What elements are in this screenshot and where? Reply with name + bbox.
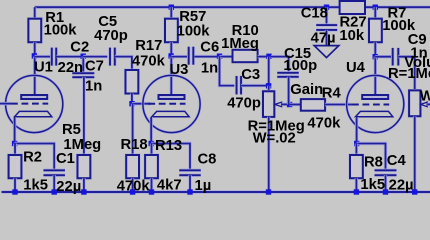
svg-text:470k: 470k — [117, 178, 151, 194]
capacitor C18 — [316, 23, 337, 26]
wire C18 to ground — [325, 30, 328, 46]
wire C8 bottom lead — [188, 175, 191, 192]
wire node to C9 — [375, 55, 391, 58]
wire R2 top lead — [13, 144, 16, 156]
wire R13 top lead — [150, 144, 153, 156]
resistor R57 — [164, 18, 178, 43]
potentiometer Volume wiper arrow — [421, 102, 427, 107]
node rail R13 — [149, 189, 154, 194]
wire R1 top lead — [33, 7, 36, 19]
capacitor C15 — [277, 71, 299, 74]
svg-text:C8: C8 — [198, 152, 217, 168]
svg-text:U4: U4 — [346, 60, 366, 76]
svg-text:W=.02: W=.02 — [253, 130, 296, 146]
node rail R18 — [130, 189, 135, 194]
wire U1 cathode to C1 corner — [15, 144, 55, 171]
resistor R1 — [28, 18, 42, 43]
svg-text:470k: 470k — [132, 53, 166, 69]
wire gain pot bottom lead — [267, 117, 270, 192]
capacitor C7 — [72, 71, 94, 74]
svg-text:100k: 100k — [177, 23, 211, 39]
svg-text:R18: R18 — [121, 137, 148, 153]
wire R17 bottom lead — [130, 94, 133, 104]
resistor R10 — [233, 50, 258, 62]
resistor R7 — [368, 18, 382, 43]
triode U3 envelope and plate — [143, 75, 200, 132]
wire C6 to C3 node — [194, 55, 219, 58]
wire U3 plate lead — [170, 57, 173, 95]
capacitor C6 — [187, 47, 190, 65]
wire grid node to R18 — [131, 104, 134, 155]
svg-text:C3: C3 — [241, 67, 260, 83]
wire R18 bottom lead — [131, 178, 134, 192]
resistor R27 — [340, 1, 365, 14]
triode U4 envelope and plate — [347, 75, 404, 132]
node rail gain pot — [266, 189, 271, 194]
wire U4 plate lead — [374, 57, 377, 95]
wire wiper to R4 — [290, 103, 301, 106]
wire R57 top lead — [170, 7, 173, 19]
wire R7 bottom lead — [374, 42, 377, 57]
wire C3 right to pot node — [241, 84, 269, 87]
node rail R8 — [354, 189, 359, 194]
wire U3 cathode lead — [149, 117, 152, 144]
node gain wiper junction — [287, 102, 292, 107]
wire bottom ground rail — [2, 190, 430, 194]
svg-text:470p: 470p — [227, 96, 261, 112]
wire C7 top riser — [82, 57, 85, 74]
node U3 cathode junction — [149, 141, 154, 146]
potentiometer Gain body — [262, 91, 275, 118]
wire C5 to R17 corner — [115, 57, 132, 70]
svg-text:R=1Meg: R=1Meg — [388, 66, 430, 82]
node B junction — [81, 54, 86, 59]
svg-text:22µ: 22µ — [56, 179, 81, 195]
wire U3 grid lead — [132, 102, 151, 105]
svg-text:47µ: 47µ — [311, 31, 336, 47]
wire C15 bottom to wiper — [287, 77, 290, 105]
svg-text:R13: R13 — [155, 138, 182, 154]
wire volume pot bottom lead — [413, 116, 416, 192]
svg-text:C6: C6 — [200, 40, 219, 56]
node U4 cathode junction — [354, 141, 359, 146]
wire gain node to C15 corner — [271, 57, 289, 73]
wire C9 to volume pot corner — [398, 57, 414, 90]
svg-text:10k: 10k — [339, 28, 364, 44]
wire R10 to gain node — [258, 55, 269, 58]
wire R7 top lead — [374, 7, 377, 19]
node rail C18 — [324, 5, 329, 10]
wire R8 top lead — [355, 144, 358, 156]
wire C4 bottom lead — [384, 175, 387, 192]
node rail volume pot — [412, 189, 417, 194]
capacitor C4 — [375, 169, 397, 172]
svg-text:1k5: 1k5 — [360, 177, 385, 193]
svg-text:100p: 100p — [283, 58, 317, 74]
triode U1 cathode — [15, 111, 52, 116]
svg-text:R8: R8 — [364, 154, 383, 170]
capacitor C3 — [235, 76, 238, 95]
triode U4 cathode — [356, 111, 393, 116]
wire U4 cathode lead — [355, 117, 358, 144]
node C3 branch junction — [217, 54, 222, 59]
node rail R57 — [169, 5, 174, 10]
resistor R13 — [144, 154, 158, 179]
triode U1 grid — [11, 103, 48, 105]
ground symbol — [314, 46, 339, 58]
wire gain pot top lead — [267, 86, 270, 91]
svg-text:R17: R17 — [135, 38, 162, 54]
triode U1 envelope and plate — [6, 75, 63, 132]
capacitor C1 — [43, 169, 64, 172]
wire R5 bottom lead — [82, 178, 85, 192]
node U3 grid junction — [129, 101, 134, 106]
wire C18 top riser — [325, 7, 328, 25]
wire top supply rail — [35, 5, 340, 8]
wire R1 bottom lead — [33, 42, 36, 56]
wire U1 plate lead — [33, 57, 36, 95]
triode U3 cathode — [152, 111, 189, 116]
svg-text:C18: C18 — [301, 6, 328, 22]
svg-text:C2: C2 — [70, 39, 89, 55]
resistor R2 — [8, 154, 22, 179]
svg-text:C4: C4 — [387, 153, 407, 169]
wire C2 to node B — [57, 55, 84, 58]
wire U1 grid input — [0, 102, 11, 105]
resistor R18 — [125, 154, 139, 179]
svg-text:C7: C7 — [85, 59, 104, 75]
svg-text:R2: R2 — [23, 150, 42, 166]
resistor R5 — [77, 154, 91, 179]
potentiometer Gain wiper arrow — [275, 102, 282, 107]
capacitor C9 — [391, 48, 394, 66]
resistor R17 — [125, 69, 139, 94]
node rail C4 — [383, 189, 388, 194]
node gain top junction — [266, 54, 271, 59]
wire C3 left drop — [220, 57, 235, 86]
wire R2 bottom lead — [13, 178, 16, 192]
node rail C8 — [187, 189, 192, 194]
svg-text:100k: 100k — [44, 23, 78, 39]
wire R4 to U4 grid — [325, 103, 352, 106]
node rail R7 — [373, 5, 378, 10]
svg-text:W=.02: W=.02 — [420, 89, 430, 105]
triode U4 grid — [352, 104, 389, 106]
resistor R4 — [301, 99, 325, 111]
wire C1 bottom lead — [53, 175, 56, 192]
capacitor C5 — [108, 48, 111, 66]
wire C7 to R5 — [82, 77, 85, 155]
node U4 plate junction — [373, 54, 378, 59]
svg-text:1n: 1n — [201, 61, 218, 77]
svg-text:1k5: 1k5 — [23, 177, 48, 193]
potentiometer Volume body — [408, 90, 421, 117]
node U1 plate junction — [32, 53, 37, 58]
wire gain node down — [267, 57, 270, 86]
node gain pot top junction — [266, 83, 271, 88]
svg-text:Gain: Gain — [290, 82, 323, 98]
node rail C1 — [52, 189, 57, 194]
svg-text:4k7: 4k7 — [157, 178, 182, 194]
svg-text:C1: C1 — [56, 151, 75, 167]
svg-text:1µ: 1µ — [195, 178, 212, 194]
wire node to C6 — [171, 55, 187, 58]
node rail R5 — [81, 189, 86, 194]
svg-text:1Meg: 1Meg — [221, 36, 259, 52]
svg-text:22n: 22n — [58, 60, 84, 76]
wire node B to C5 — [83, 55, 107, 58]
capacitor C2 — [50, 48, 53, 66]
wire R57 bottom lead — [170, 42, 173, 56]
svg-text:R5: R5 — [62, 122, 81, 138]
node U1 cathode junction — [12, 141, 17, 146]
svg-text:U3: U3 — [170, 62, 189, 78]
svg-text:1Meg: 1Meg — [63, 137, 101, 153]
wire C3 node to R10 — [220, 55, 233, 58]
svg-text:470p: 470p — [94, 28, 128, 44]
svg-text:U1: U1 — [34, 60, 53, 76]
wire R8 bottom lead — [355, 178, 358, 192]
svg-text:22µ: 22µ — [389, 177, 414, 193]
wire U1 cathode lead — [13, 117, 16, 144]
triode U3 grid — [148, 103, 185, 105]
svg-text:R4: R4 — [322, 86, 342, 102]
wire U3 cathode to C8 corner — [151, 144, 190, 171]
wire R13 bottom lead — [150, 178, 153, 192]
svg-text:470k: 470k — [307, 116, 341, 132]
node rail R2 — [12, 189, 17, 194]
svg-text:1n: 1n — [85, 79, 102, 95]
wire node to C2 — [35, 55, 51, 58]
node U3 plate junction — [168, 53, 173, 58]
wire U4 cathode to C4 corner — [357, 144, 386, 171]
capacitor C8 — [179, 169, 201, 172]
resistor R8 — [349, 154, 363, 179]
